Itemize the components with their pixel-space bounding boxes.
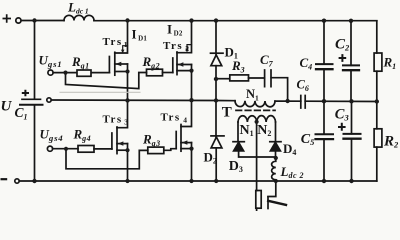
- svg-text:ID2: ID2: [167, 22, 183, 38]
- diode D2: [215, 101, 217, 182]
- wire Ugs1 to Rg1: [53, 72, 76, 74]
- svg-text:Ldc 2: Ldc 2: [280, 164, 305, 180]
- svg-text:D4: D4: [283, 141, 296, 157]
- diode D4: [270, 141, 281, 143]
- scan shadow artifact: [60, 91, 140, 93]
- wire Rg2 to Trs2 gate: [163, 72, 173, 74]
- svg-text:C3: C3: [335, 106, 350, 122]
- terminal circle (- input): [15, 179, 19, 183]
- svg-text:Rg1: Rg1: [71, 54, 90, 71]
- svg-text:Ugs1: Ugs1: [39, 52, 63, 69]
- svg-text:C5: C5: [301, 132, 315, 147]
- inductor Ldc2: [272, 157, 276, 181]
- svg-text:C4: C4: [300, 55, 313, 72]
- label - (bottom input): [1, 178, 8, 180]
- svg-text:T: T: [222, 105, 232, 121]
- svg-text:N2: N2: [257, 123, 271, 138]
- diode D1: [215, 21, 217, 101]
- capacitor C2: [350, 21, 352, 101]
- current arrow ID1: [123, 46, 128, 51]
- wire Rg4 to Trs3 gate: [94, 148, 112, 150]
- svg-text:Rg3: Rg3: [142, 132, 161, 149]
- label + (C3): [338, 123, 346, 131]
- svg-text:Ugs4: Ugs4: [40, 126, 64, 143]
- svg-text:D3: D3: [229, 159, 243, 174]
- svg-text:C2: C2: [335, 36, 350, 52]
- capacitor C1: [22, 98, 41, 100]
- svg-text:N1: N1: [240, 123, 254, 138]
- svg-text:Rg2: Rg2: [142, 54, 161, 71]
- label + (top input): [3, 14, 12, 22]
- junction dots bottom rail: [32, 179, 36, 183]
- snubber branch wire: [216, 78, 230, 80]
- svg-text:Trs2: Trs2: [163, 40, 190, 53]
- svg-text:C6: C6: [297, 78, 309, 94]
- capacitor C6: [301, 96, 305, 109]
- current arrow ID2: [187, 45, 192, 50]
- resistor Rg3: [148, 147, 164, 154]
- resistor R3: [230, 75, 249, 81]
- label + (C1): [22, 90, 29, 96]
- junction dots top rail: [32, 18, 379, 183]
- junction dots mid rail: [125, 98, 129, 102]
- terminal circle (+ input): [16, 18, 21, 23]
- below rail: sense resistor: [256, 208, 258, 211]
- diode D3: [233, 141, 244, 143]
- transformer secondary coil: [238, 116, 276, 122]
- source Ugs4 circle: [47, 146, 52, 151]
- capacitor C3: [351, 101, 353, 181]
- left vertical wire: [34, 21, 36, 182]
- below rail: switch: [268, 181, 276, 197]
- svg-text:R2: R2: [383, 133, 399, 149]
- transistor Trs4: [175, 132, 177, 149]
- label + (C2): [339, 54, 347, 62]
- resistor Rg4: [78, 146, 94, 153]
- resistor R2: [376, 102, 378, 182]
- transistor Trs1: [108, 57, 110, 73]
- mid rail: [47, 98, 51, 102]
- svg-text:Ldc 1: Ldc 1: [67, 0, 89, 16]
- resistor Rg1: [77, 70, 91, 76]
- svg-text:Trs4: Trs4: [161, 111, 189, 124]
- svg-text:Trs1: Trs1: [103, 36, 129, 49]
- transformer primary N1 coil: [235, 101, 275, 107]
- svg-text:D2: D2: [204, 149, 217, 165]
- transformer core: [236, 109, 275, 111]
- svg-text:Trs3: Trs3: [103, 114, 130, 127]
- wire lower gate bus to Rg3: [66, 149, 148, 169]
- capacitor C7: [265, 70, 271, 87]
- wire gate bus to Rg2: [66, 73, 147, 89]
- junction dot snubber: [214, 77, 218, 81]
- svg-text:Rg4: Rg4: [73, 127, 92, 144]
- svg-text:C1: C1: [15, 105, 28, 122]
- svg-text:R3: R3: [231, 58, 245, 75]
- wire Rg3 to Trs4 gate: [164, 149, 176, 151]
- svg-text:N1: N1: [246, 87, 259, 103]
- gate bus dots: [63, 71, 67, 75]
- wire Ugs4 to Rg4: [53, 148, 78, 150]
- capacitor C4: [323, 21, 325, 101]
- svg-text:C7: C7: [260, 52, 274, 69]
- wire Rg1 to Trs1 gate: [92, 72, 109, 74]
- svg-text:U: U: [1, 99, 13, 115]
- transistor Trs3: [111, 133, 113, 149]
- capacitor C5: [323, 101, 325, 181]
- svg-text:ID1: ID1: [132, 26, 148, 42]
- center tap wire: [256, 122, 258, 191]
- bottom rail: [19, 180, 377, 182]
- resistor Rg2: [147, 69, 163, 76]
- svg-text:R1: R1: [383, 55, 397, 72]
- transistor Trs2: [172, 58, 174, 73]
- resistor R1: [376, 21, 378, 102]
- source Ugs1 circle: [48, 70, 53, 75]
- inductor Ldc1: [64, 15, 94, 20]
- top rail: [21, 20, 377, 22]
